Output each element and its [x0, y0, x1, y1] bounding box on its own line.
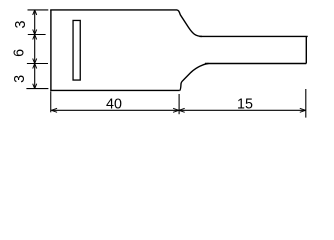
extension tick at y=63.5 (6/3 boundary) — [27, 63, 48, 65]
part outline: top edge of wide section — [50, 9, 177, 11]
part outline: right end edge — [305, 36, 307, 63]
part outline: bottom edge of narrow section — [205, 63, 306, 65]
arrow right at end of 40 dim — [173, 108, 179, 112]
svg-text:6: 6 — [12, 49, 28, 57]
part outline: top edge of narrow section — [200, 35, 308, 37]
part outline: wide grip section left edge — [50, 10, 52, 91]
arrow up onto 3/6 boundary — [33, 35, 37, 40]
left vertical dimension line — [34, 10, 36, 89]
slot rectangle inside grip — [73, 20, 80, 80]
40 dimension line — [51, 109, 179, 111]
arrow up onto 6/3 boundary — [33, 64, 37, 69]
arrow up at top of 3 dim — [33, 10, 37, 15]
svg-text:40: 40 — [106, 97, 122, 113]
part outline: bottom transition curve — [180, 64, 209, 91]
arrow down onto 3/6 boundary — [33, 30, 37, 35]
15 dimension line — [179, 109, 306, 111]
part outline: top transition curve — [177, 10, 202, 37]
arrow left at start of 40 dim — [51, 108, 57, 112]
arrow right at end of 15 dim — [300, 108, 306, 112]
arrow left at start of 15 dim — [179, 108, 185, 112]
svg-text:15: 15 — [237, 97, 253, 113]
svg-text:3: 3 — [13, 20, 29, 28]
arrow down at bottom of 3 dim — [33, 84, 37, 89]
extension tick at y=10 (top of 3) — [28, 9, 49, 11]
part outline: bottom edge of wide section — [50, 89, 180, 91]
extension line at right end for 15 dim — [305, 89, 307, 118]
extension tick at y=89.1 (bottom of 3) — [26, 88, 48, 90]
arrow down onto 6/3 boundary — [33, 59, 37, 64]
extension line below left edge for 40 dim — [50, 91, 52, 112]
extension line at x=179 for 40/15 dims — [178, 94, 180, 114]
extension tick at y=34.5 (3/6 boundary) — [28, 34, 46, 36]
svg-text:3: 3 — [12, 75, 28, 83]
